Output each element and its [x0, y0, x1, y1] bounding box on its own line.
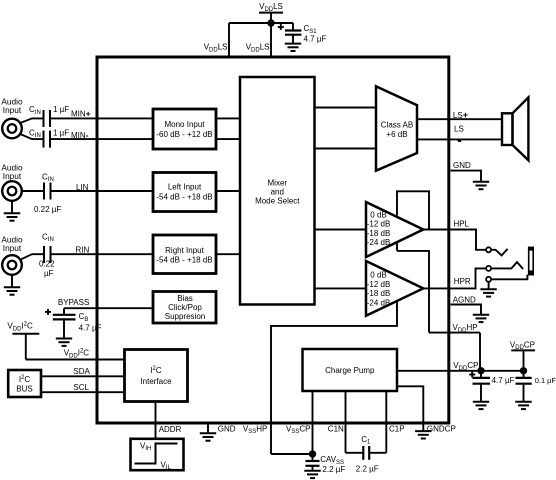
svg-text:GND: GND — [453, 161, 471, 170]
svg-text:Mode Select: Mode Select — [255, 196, 300, 205]
svg-text:µF: µF — [44, 269, 54, 278]
svg-text:-24 dB: -24 dB — [367, 298, 391, 307]
svg-text:BYPASS: BYPASS — [58, 298, 89, 307]
svg-text:Left Input: Left Input — [168, 183, 202, 192]
svg-text:Interface: Interface — [140, 377, 172, 386]
svg-text:Class AB: Class AB — [381, 121, 413, 130]
svg-text:LIN: LIN — [76, 183, 89, 192]
svg-text:0.22: 0.22 — [39, 260, 55, 269]
svg-text:Suppresion: Suppresion — [165, 312, 205, 321]
svg-text:BUS: BUS — [16, 384, 32, 393]
svg-text:LS: LS — [454, 125, 464, 134]
svg-text:AGND: AGND — [453, 296, 476, 305]
svg-text:0.1 µF: 0.1 µF — [535, 376, 556, 385]
svg-text:Right Input: Right Input — [165, 246, 204, 255]
svg-text:HPR: HPR — [454, 277, 471, 286]
svg-text:2.2 µF: 2.2 µF — [356, 465, 379, 474]
svg-text:MIN-: MIN- — [71, 130, 89, 140]
svg-text:SCL: SCL — [73, 383, 89, 392]
svg-text:LS+: LS+ — [453, 110, 468, 120]
svg-text:SDA: SDA — [73, 367, 90, 376]
svg-text:Input: Input — [3, 171, 22, 181]
svg-text:-18 dB: -18 dB — [367, 289, 391, 298]
svg-text:-60 dB - +12 dB: -60 dB - +12 dB — [156, 130, 212, 139]
svg-text:4.7 µF: 4.7 µF — [492, 376, 515, 385]
svg-text:-12 dB: -12 dB — [367, 220, 391, 229]
svg-text:Mono Input: Mono Input — [164, 120, 205, 129]
svg-text:Charge Pump: Charge Pump — [325, 366, 375, 375]
svg-text:4.7 µF: 4.7 µF — [304, 35, 327, 44]
svg-text:-54 dB - +18 dB: -54 dB - +18 dB — [156, 193, 212, 202]
svg-text:C1P: C1P — [389, 424, 405, 433]
svg-text:-54 dB - +18 dB: -54 dB - +18 dB — [156, 256, 212, 265]
svg-text:0 dB: 0 dB — [370, 211, 386, 220]
svg-text:2.2 µF: 2.2 µF — [322, 465, 345, 474]
svg-text:ADDR: ADDR — [159, 425, 182, 434]
svg-text:-18 dB: -18 dB — [367, 229, 391, 238]
svg-text:GNDCP: GNDCP — [427, 424, 456, 433]
svg-text:0 dB: 0 dB — [370, 271, 386, 280]
svg-text:I2C: I2C — [150, 366, 162, 375]
svg-text:4.7 µF: 4.7 µF — [79, 324, 102, 333]
svg-text:HPL: HPL — [454, 220, 470, 229]
svg-text:MIN+: MIN+ — [71, 108, 91, 118]
svg-text:Mixer: Mixer — [268, 178, 288, 187]
svg-text:Click/Pop: Click/Pop — [168, 303, 202, 312]
svg-text:I2C: I2C — [19, 375, 31, 384]
svg-text:-12 dB: -12 dB — [367, 280, 391, 289]
svg-text:and: and — [271, 187, 284, 196]
svg-text:Input: Input — [3, 105, 22, 115]
svg-text:+6 dB: +6 dB — [386, 130, 407, 139]
svg-text:Input: Input — [3, 243, 22, 253]
svg-text:GND: GND — [218, 424, 236, 433]
svg-text:1 µF: 1 µF — [53, 128, 69, 137]
svg-text:C1N: C1N — [328, 424, 344, 433]
svg-text:Bias: Bias — [177, 294, 193, 303]
svg-text:-24 dB: -24 dB — [367, 238, 391, 247]
svg-text:0.22 µF: 0.22 µF — [34, 205, 61, 214]
svg-text:1 µF: 1 µF — [53, 105, 69, 114]
svg-text:RIN: RIN — [76, 245, 90, 254]
